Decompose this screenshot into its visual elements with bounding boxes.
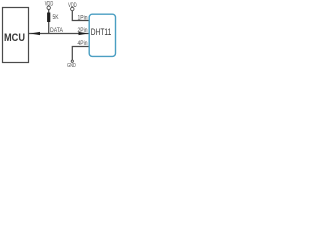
svg-text:VDD: VDD bbox=[45, 2, 54, 8]
arrowhead toward DHT11 bbox=[79, 32, 89, 35]
resistor R1 bbox=[47, 13, 50, 23]
wire VDD2 to pin1 bbox=[72, 11, 88, 21]
wire resistor to DATA node bbox=[48, 22, 50, 34]
MCU box U1 bbox=[3, 8, 29, 63]
wire pin4 to GND bbox=[72, 47, 88, 61]
arrowhead toward MCU bbox=[30, 32, 40, 35]
svg-text:DHT11: DHT11 bbox=[91, 27, 112, 37]
DHT11 sensor box U2 bbox=[89, 14, 115, 56]
svg-text:5K: 5K bbox=[53, 15, 59, 21]
svg-text:2Pin: 2Pin bbox=[78, 28, 88, 34]
wire DATA (MCU to DHT11 pin2) bbox=[29, 33, 89, 35]
ground GND bbox=[71, 60, 73, 62]
svg-text:GND: GND bbox=[67, 63, 76, 69]
svg-text:DATA: DATA bbox=[50, 28, 63, 34]
svg-text:VDD: VDD bbox=[68, 3, 77, 9]
wire VDD1 to resistor bbox=[48, 10, 50, 14]
background bbox=[0, 0, 120, 72]
svg-text:1Pin: 1Pin bbox=[78, 15, 88, 21]
svg-text:MCU: MCU bbox=[4, 32, 25, 44]
